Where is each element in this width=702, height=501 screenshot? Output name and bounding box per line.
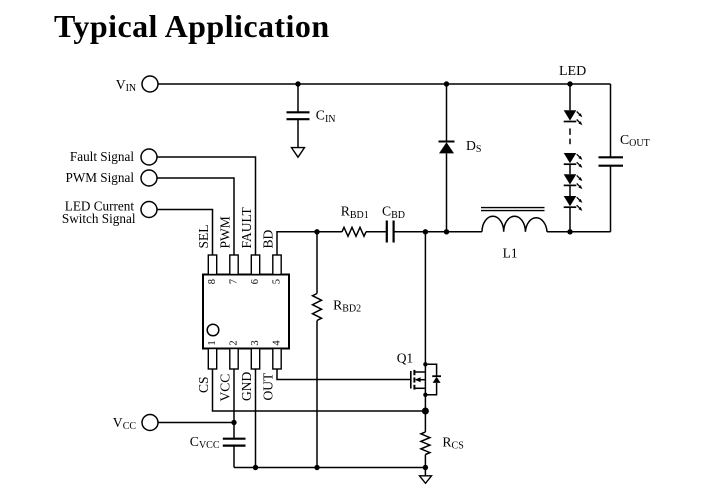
node RCS bottom	[423, 465, 428, 470]
svg-text:Switch Signal: Switch Signal	[62, 211, 136, 226]
svg-text:L1: L1	[503, 245, 518, 260]
node RBD2 bottom	[314, 465, 319, 470]
resistor RBD2	[313, 294, 322, 321]
wire right edge bottom	[610, 166, 612, 232]
wire vcc pin to cvcc	[233, 369, 235, 438]
capacitor CBD	[387, 221, 394, 243]
svg-text:PWM Signal: PWM Signal	[65, 170, 134, 185]
wire RBD1 to CBD	[366, 231, 386, 233]
node RBD2 top	[314, 229, 319, 234]
node diode drain	[423, 362, 427, 366]
svg-text:4: 4	[272, 340, 283, 346]
node DS bottom	[444, 229, 449, 234]
svg-text:PWM: PWM	[218, 216, 233, 248]
wire CIN branch lower	[297, 120, 299, 148]
wire L1 to right edge	[547, 231, 611, 233]
wire q1 drain-source column	[424, 232, 426, 411]
diode DS	[439, 142, 455, 154]
node CS	[422, 408, 429, 415]
svg-text:Fault Signal: Fault Signal	[70, 149, 134, 164]
wire ground rail	[234, 467, 425, 469]
svg-text:1: 1	[207, 340, 218, 345]
wire DS branch upper	[446, 84, 448, 141]
IC pin 7	[230, 255, 238, 275]
svg-text:5: 5	[272, 279, 283, 284]
svg-text:Typical Application: Typical Application	[54, 8, 330, 44]
wire BD to pin5	[277, 232, 342, 255]
terminal Fault	[141, 149, 157, 165]
capacitor CVCC	[223, 439, 246, 446]
LED D3	[564, 174, 583, 196]
svg-text:Q1: Q1	[397, 351, 414, 366]
terminal VCC	[142, 415, 158, 431]
resistor RCS	[421, 432, 430, 455]
node drain top	[423, 229, 428, 234]
node DS top	[444, 81, 449, 86]
svg-text:7: 7	[229, 279, 240, 284]
inductor L1 core lines	[481, 208, 545, 211]
svg-text:2: 2	[229, 340, 240, 345]
svg-text:GND: GND	[239, 372, 254, 401]
capacitor COUT	[599, 157, 624, 165]
wire rbd2 bottom	[316, 321, 318, 468]
svg-text:OUT: OUT	[261, 372, 276, 400]
node CIN top	[295, 81, 300, 86]
terminal VIN	[142, 76, 158, 92]
svg-text:SEL: SEL	[196, 224, 211, 248]
wire rcs bottom	[424, 455, 426, 476]
IC pin 3	[251, 349, 259, 370]
node VCC	[231, 420, 236, 425]
resistor RCS ground	[420, 476, 432, 484]
node diode source	[423, 393, 427, 397]
wire cs pin to rcs node	[213, 369, 426, 411]
IC pin1 indicator	[207, 324, 219, 336]
wire led switch signal	[157, 210, 213, 256]
resistor RBD1	[342, 227, 366, 236]
IC pin 6	[251, 255, 259, 275]
svg-text:3: 3	[250, 340, 261, 345]
wire right edge top	[610, 84, 612, 157]
wire CBD to L1	[394, 231, 482, 233]
IC pin 1	[208, 349, 216, 370]
wire CIN branch upper	[297, 84, 299, 112]
wire fault signal	[157, 157, 256, 255]
svg-text:8: 8	[207, 279, 218, 284]
LED D1	[564, 110, 583, 125]
wire rbd2 top	[316, 232, 318, 294]
svg-text:FAULT: FAULT	[239, 206, 254, 248]
svg-text:CS: CS	[196, 376, 211, 393]
svg-text:LED: LED	[559, 64, 586, 79]
capacitor CIN	[287, 112, 310, 119]
terminal PWM	[141, 170, 157, 186]
IC pin 4	[273, 349, 281, 370]
wire vcc terminal	[158, 422, 234, 424]
svg-text:BD: BD	[261, 229, 276, 248]
IC pin 5	[273, 255, 281, 275]
terminal LED switch	[141, 202, 157, 218]
wire out pin to gate	[277, 369, 411, 380]
svg-text:6: 6	[250, 279, 261, 284]
inductor L1	[482, 216, 547, 232]
IC pin 8	[208, 255, 216, 275]
dashed wire between LEDs	[569, 128, 571, 144]
ground below CIN	[292, 148, 305, 158]
IC pin 2	[230, 349, 238, 370]
IC U1 body	[203, 275, 289, 349]
wire DS branch lower	[446, 154, 448, 232]
svg-text:VCC: VCC	[218, 374, 233, 402]
LED D4	[564, 196, 583, 232]
node LED top	[567, 81, 572, 86]
wire top rail	[158, 83, 611, 85]
node GND rail	[253, 465, 258, 470]
node LED bottom	[567, 229, 572, 234]
transistor Q1	[411, 364, 441, 395]
wire pwm signal	[157, 178, 234, 255]
wire cvcc to rail	[233, 446, 235, 467]
wire rcs top	[424, 411, 426, 432]
wire LED branch top	[569, 84, 571, 110]
wire gnd pin	[255, 369, 257, 468]
LED D2	[564, 153, 583, 174]
